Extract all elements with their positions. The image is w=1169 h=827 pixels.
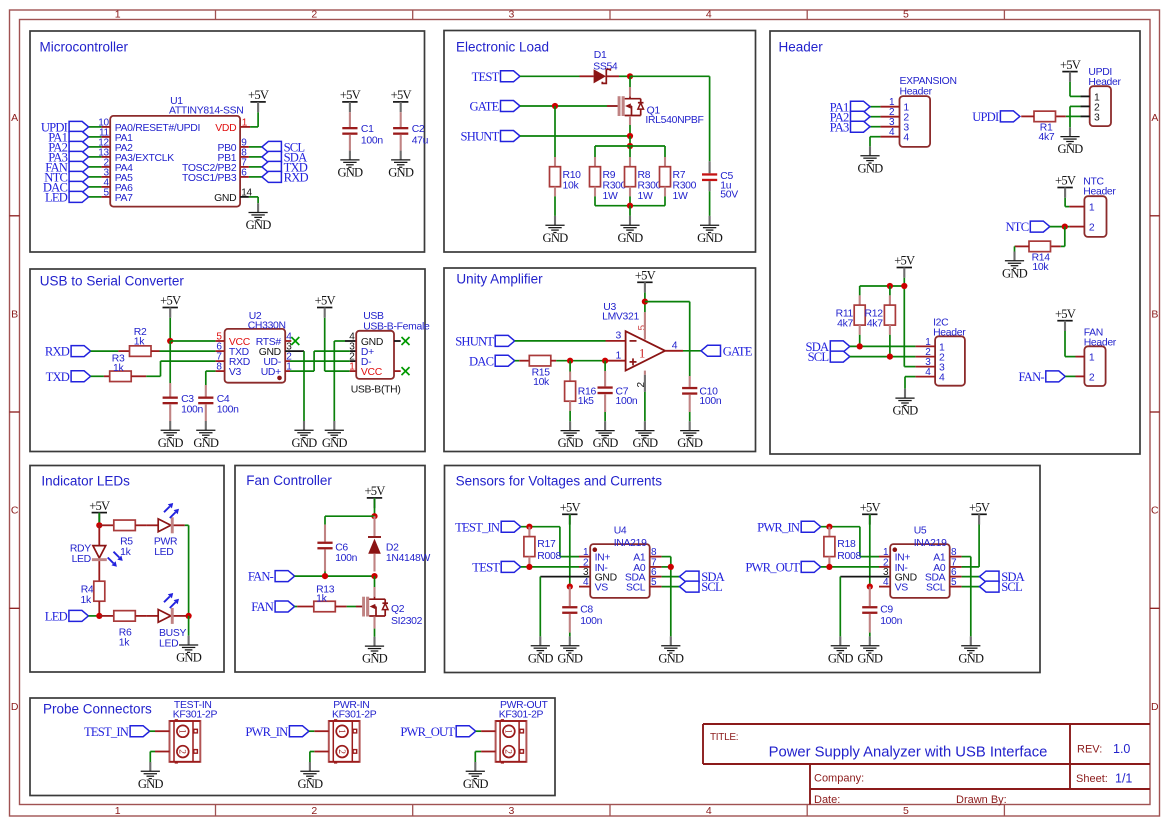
LED PWR <box>154 503 179 558</box>
wire TEST_IN to pin1 <box>150 730 155 732</box>
svg-text:3: 3 <box>509 9 515 21</box>
svg-text:4: 4 <box>939 373 945 384</box>
svg-text:GND: GND <box>658 651 684 665</box>
wire R5 to PWR LED <box>147 524 159 526</box>
wire Q1 drain <box>629 76 631 96</box>
svg-text:FAN-: FAN- <box>1019 370 1045 384</box>
svg-text:1/1: 1/1 <box>1115 772 1132 786</box>
label PA1 (header) <box>830 100 870 114</box>
svg-text:UPDI: UPDI <box>972 110 999 124</box>
svg-text:KF301-2P: KF301-2P <box>499 710 544 721</box>
wire U4 SCL <box>662 586 680 588</box>
ground (C10) <box>677 421 703 450</box>
wire SHUNT to U3 pin3 <box>515 340 626 342</box>
wire R16 to ground <box>569 411 571 421</box>
resistor R15 10k <box>515 355 557 387</box>
wire resistor top bus <box>595 145 665 147</box>
wire bus to ground <box>629 206 631 216</box>
svg-text:Date:: Date: <box>814 794 840 806</box>
wire to PA1 <box>89 136 102 138</box>
svg-text:C3: C3 <box>181 394 194 405</box>
svg-text:C2: C2 <box>412 124 425 135</box>
label PWR_IN (probe) <box>245 725 309 739</box>
connector FAN Header body <box>1084 327 1117 386</box>
wire R15 to U3 pin1 <box>556 360 625 362</box>
svg-text:USB to Serial Converter: USB to Serial Converter <box>40 274 185 289</box>
PWR-IN pin leads <box>314 731 329 751</box>
wire TEST-IN pin2 to ground <box>150 752 155 763</box>
svg-text:RXD: RXD <box>284 171 309 185</box>
svg-text:A: A <box>1151 112 1158 124</box>
label PA3 (header) <box>830 120 870 134</box>
wire C6 to FAN- node <box>324 572 326 577</box>
wire to UPDI <box>89 126 102 128</box>
svg-text:+5V: +5V <box>1055 174 1076 188</box>
connector TEST-IN KF301-2P body <box>170 700 218 764</box>
wire +5V to NTC pin1 <box>1065 198 1069 207</box>
label SDA (U5) <box>980 570 1025 584</box>
ground (C7) <box>593 421 619 450</box>
svg-text:1k: 1k <box>316 594 327 605</box>
svg-text:KF301-2P: KF301-2P <box>332 710 377 721</box>
svg-text:PWR: PWR <box>154 536 178 547</box>
svg-text:4k7: 4k7 <box>867 319 883 330</box>
U4 pin 5 SCL <box>626 577 662 593</box>
svg-text:B: B <box>1151 308 1158 320</box>
label UPDI (header) <box>972 110 1020 124</box>
svg-text:1k: 1k <box>134 336 145 347</box>
capacitor C7 100n <box>598 361 638 412</box>
junction PWR_IN/R18 <box>826 524 832 530</box>
wire PWR-IN pin2 to ground <box>310 752 314 763</box>
svg-text:A: A <box>11 112 18 124</box>
svg-text:50V: 50V <box>720 189 738 200</box>
svg-text:B: B <box>11 308 18 320</box>
svg-text:GND: GND <box>558 436 584 450</box>
U2 RTS# no-connect <box>285 337 299 345</box>
svg-text:+5V: +5V <box>248 88 269 102</box>
svg-text:+5V: +5V <box>1060 58 1081 72</box>
wire to RXD <box>249 176 262 178</box>
label PA1 <box>48 131 88 145</box>
capacitor C5 1u 50V <box>702 161 738 200</box>
power +5V (U1) <box>248 88 269 112</box>
svg-text:RXD: RXD <box>45 345 70 359</box>
svg-text:1: 1 <box>616 350 622 361</box>
svg-text:4k7: 4k7 <box>1039 132 1055 143</box>
svg-text:1k: 1k <box>119 637 130 648</box>
junction PWR_OUT/R18 <box>826 564 832 570</box>
svg-text:IRL540NPBF: IRL540NPBF <box>645 115 703 126</box>
svg-text:R9: R9 <box>603 170 616 181</box>
ground (U5 A1) <box>958 636 984 665</box>
svg-text:2: 2 <box>503 749 513 754</box>
svg-text:PWR_IN: PWR_IN <box>757 520 800 534</box>
U2 pin 4 RTS# <box>256 332 292 348</box>
svg-text:PWR_IN: PWR_IN <box>245 725 288 739</box>
label PWR_OUT <box>745 561 820 575</box>
U2 pin 7 RXD <box>216 352 250 368</box>
wire NTC node to R14 <box>1061 227 1065 247</box>
USB shield pin no-connect top <box>394 337 410 345</box>
junction TEST_IN/R17 <box>526 524 532 530</box>
wire U5 SCL <box>962 586 980 588</box>
junction resistor bus top <box>627 143 633 149</box>
section box Sensors for Voltages and Currents <box>445 466 1041 673</box>
wire BUSY LED to rail <box>174 615 189 617</box>
label TEST_IN (probe) <box>84 725 150 739</box>
U1 pin 5 PA7 <box>101 187 133 203</box>
wire U4 A0 join <box>662 566 671 568</box>
label SCL (U5) <box>980 580 1023 594</box>
wire U5 A1 to ground rail <box>962 557 971 637</box>
U1 pin 4 PA6 <box>101 177 133 193</box>
IC U5 INA219 body <box>890 526 950 598</box>
svg-text:5: 5 <box>903 805 909 817</box>
label PA2 (header) <box>830 110 870 124</box>
power +5V (U4 VS) <box>560 501 581 525</box>
svg-text:SHUNT: SHUNT <box>461 130 500 144</box>
ground (C2) <box>388 151 414 180</box>
USB pin 3 D+ <box>349 342 374 358</box>
wire +5V over to C6 <box>325 516 375 524</box>
resistor R18 R008 <box>824 527 862 567</box>
U1 pin 10 PA0/RESET#/UPDI <box>98 117 200 133</box>
svg-text:C6: C6 <box>335 543 348 554</box>
wire C8 to ground <box>569 633 571 637</box>
ground (C4) <box>193 421 219 450</box>
svg-text:GND: GND <box>593 436 619 450</box>
wire +5V down to I2C pin3 <box>903 278 905 367</box>
U4 pin 8 A1 <box>633 547 661 563</box>
USB pin 4 GND <box>349 332 383 348</box>
ground (R10) <box>543 216 569 245</box>
svg-text:R008: R008 <box>837 551 861 562</box>
wire PA2 to EXPANSION <box>870 116 880 118</box>
wire TEST to D1 <box>520 75 580 77</box>
svg-text:GND: GND <box>632 436 658 450</box>
svg-text:100n: 100n <box>335 553 357 564</box>
capacitor C4 100n <box>198 385 239 421</box>
svg-text:+5V: +5V <box>894 254 915 268</box>
svg-text:V3: V3 <box>229 367 242 378</box>
svg-text:REV:: REV: <box>1077 744 1102 756</box>
svg-text:100n: 100n <box>699 396 721 407</box>
capacitor C8 100n <box>562 587 602 633</box>
svg-text:1: 1 <box>115 9 121 21</box>
I2C header pin 1 <box>916 337 936 348</box>
svg-text:R008: R008 <box>537 551 561 562</box>
svg-text:D: D <box>11 701 19 713</box>
EXPANSION pin 1 <box>880 97 899 108</box>
ground (R14) <box>1002 252 1028 281</box>
svg-text:10k: 10k <box>533 377 550 388</box>
connector PWR-IN KF301-2P body <box>329 700 377 764</box>
USB shield pin no-connect bottom <box>394 367 410 375</box>
USB pin 1 VCC <box>349 362 382 378</box>
wire TEST to IN- <box>521 566 579 568</box>
ground (LEDs) <box>176 636 202 665</box>
svg-text:5: 5 <box>903 9 909 21</box>
LED BUSY <box>158 593 186 650</box>
svg-text:USB: USB <box>363 311 384 322</box>
resistor R4 1k <box>81 561 105 616</box>
svg-text:GND: GND <box>677 436 703 450</box>
label LED (indicator) <box>45 610 89 624</box>
svg-text:GATE: GATE <box>723 344 753 358</box>
svg-text:100n: 100n <box>217 405 239 416</box>
svg-text:PA7: PA7 <box>115 193 133 204</box>
I2C header pin 4 <box>916 367 936 378</box>
power +5V (U2) <box>160 294 181 318</box>
junction +5V/C3 <box>167 338 173 344</box>
resistor R16 1k5 <box>565 361 597 411</box>
U2 pin 3 GND <box>259 342 293 358</box>
IC U4 INA219 body <box>590 526 650 598</box>
resistor R8 R300 1W <box>625 146 662 202</box>
svg-text:TITLE:: TITLE: <box>710 732 738 743</box>
resistor R11 4k7 <box>836 286 866 335</box>
svg-text:GND: GND <box>463 777 489 791</box>
junction R16 tap <box>567 358 573 364</box>
svg-text:Header: Header <box>1088 77 1121 88</box>
wire R11 to SDA <box>859 335 861 347</box>
wire U3 pin2 to ground <box>644 392 646 421</box>
junction VS/C9 <box>867 584 873 590</box>
svg-text:1N4148W: 1N4148W <box>386 553 431 564</box>
wire Q2 source to ground <box>373 616 375 636</box>
wire U2 GND pin3 <box>285 351 304 421</box>
LED RDY <box>70 525 123 566</box>
resistor R5 1k <box>99 520 146 558</box>
wire R9 bottom <box>594 196 596 205</box>
wire SDA to I2C pin1 <box>850 345 916 347</box>
wire +5V down <box>374 498 376 516</box>
wire U3 output to GATE <box>665 350 701 352</box>
label PA2 <box>48 141 88 155</box>
label RXD <box>262 171 309 185</box>
wire SHUNT <box>520 135 630 137</box>
U5 pin 2 IN- <box>879 557 908 573</box>
wire +5V over to C10 <box>645 302 690 376</box>
svg-text:USB-B(TH): USB-B(TH) <box>351 385 401 396</box>
svg-text:GND: GND <box>297 777 323 791</box>
label UPDI <box>41 121 89 135</box>
wire +5V to USB VCC <box>325 318 357 371</box>
svg-text:Electronic Load: Electronic Load <box>456 40 549 55</box>
label NTC <box>44 171 88 185</box>
svg-text:100n: 100n <box>181 405 203 416</box>
svg-text:Q2: Q2 <box>391 604 405 615</box>
resistor R12 4k7 <box>865 286 896 335</box>
svg-text:C: C <box>1151 505 1159 517</box>
svg-text:PWR_OUT: PWR_OUT <box>745 561 800 575</box>
wire EXPANSION pin4 to ground <box>870 137 880 147</box>
svg-text:GND: GND <box>214 193 236 204</box>
svg-text:+5V: +5V <box>635 269 656 283</box>
wire +5V elbow to pin3 <box>904 366 915 368</box>
svg-text:2: 2 <box>1089 223 1095 234</box>
ground (Q2) <box>362 637 388 666</box>
svg-text:RDY: RDY <box>70 544 91 555</box>
svg-text:ATTINY814-SSN: ATTINY814-SSN <box>169 106 243 117</box>
resistor R7 R300 1W <box>660 146 697 202</box>
wire to SCL <box>249 146 262 148</box>
svg-text:U5: U5 <box>914 526 927 537</box>
svg-text:NTC: NTC <box>1006 220 1029 234</box>
svg-text:VDD: VDD <box>215 123 236 134</box>
ground (C8) <box>557 636 583 665</box>
section box Unity Amplifier <box>444 268 756 452</box>
capacitor C1 100n <box>342 112 383 150</box>
wire RXD to R2 <box>91 350 119 352</box>
transistor Q2 SI2302 <box>356 597 423 627</box>
power +5V (FAN header) <box>1055 307 1076 331</box>
junction FAN-/D2 <box>371 573 377 579</box>
svg-text:R17: R17 <box>537 539 556 550</box>
wire to SDA <box>249 156 262 158</box>
U4 pin 7 A0 <box>633 557 661 573</box>
svg-text:2: 2 <box>336 749 346 754</box>
U5 pin 5 SCL <box>926 577 962 593</box>
svg-text:DAC: DAC <box>469 354 494 368</box>
FAN header pins <box>1076 357 1085 377</box>
svg-text:SCL: SCL <box>926 583 946 594</box>
U5 pin 4 VS <box>879 577 908 593</box>
junction NTC/R14 <box>1062 224 1068 230</box>
junction bottom bus <box>627 203 633 209</box>
wire R8 bottom <box>629 196 631 205</box>
wire USB GND pin4 <box>334 341 356 421</box>
svg-text:1W: 1W <box>673 191 688 202</box>
section box USB to Serial Converter <box>30 269 425 452</box>
TEST-IN pin leads <box>155 731 170 751</box>
U1 pin 2 PA4 <box>101 157 133 173</box>
svg-text:D1: D1 <box>594 50 607 61</box>
wire PWR_OUT to pin1 <box>476 730 481 732</box>
resistor R6 1k <box>99 611 146 649</box>
label NTC (header) <box>1006 220 1050 234</box>
label SDA (I2C) <box>806 340 850 354</box>
U5 pin 7 A0 <box>933 557 961 573</box>
wire to DAC <box>89 186 102 188</box>
wire C5 to ground <box>709 191 711 216</box>
svg-text:2: 2 <box>311 9 317 21</box>
svg-text:3: 3 <box>1094 112 1100 123</box>
svg-text:LED: LED <box>45 610 68 624</box>
svg-text:GND: GND <box>543 231 569 245</box>
svg-text:R300: R300 <box>603 180 627 191</box>
svg-text:+5V: +5V <box>340 88 361 102</box>
wire R13 to Q2 gate <box>347 606 356 608</box>
capacitor C9 100n <box>862 587 902 633</box>
svg-text:+5V: +5V <box>560 501 581 515</box>
junction R12 top <box>887 283 893 289</box>
junction GATE/R10 <box>552 103 558 109</box>
wire R7 bottom <box>664 196 666 205</box>
svg-text:R10: R10 <box>563 170 582 181</box>
svg-text:GND: GND <box>1058 142 1084 156</box>
capacitor C10 100n <box>682 376 722 412</box>
wire R3 to U2 pin7 <box>146 361 215 376</box>
wire resistor bottom bus <box>595 205 665 207</box>
svg-text:GND: GND <box>158 436 184 450</box>
U5 pin 3 GND <box>883 567 917 583</box>
wire VDD to +5V <box>250 112 258 127</box>
wire U5 GND pin3 <box>840 577 890 637</box>
svg-text:2: 2 <box>177 749 187 754</box>
U4 pin 3 GND <box>583 567 617 583</box>
wire C9 to ground <box>869 633 871 637</box>
svg-text:1: 1 <box>1089 203 1095 214</box>
ground (load resistors) <box>618 216 644 245</box>
U2 pin 8 V3 <box>216 362 242 378</box>
svg-text:CH330N: CH330N <box>248 321 286 332</box>
ground (C5) <box>697 216 723 245</box>
svg-text:4k7: 4k7 <box>837 319 853 330</box>
svg-text:GND: GND <box>246 218 272 232</box>
junction SDA/R11 <box>857 343 863 349</box>
section box Indicator LEDs <box>30 466 224 673</box>
svg-text:GND: GND <box>857 651 883 665</box>
svg-text:SCL: SCL <box>808 350 829 364</box>
junction +5V/C6/D2 <box>371 513 377 519</box>
wire I2C pin4 to ground <box>905 377 916 389</box>
svg-text:GND: GND <box>557 651 583 665</box>
label SCL (I2C) <box>808 350 850 364</box>
svg-text:INA219: INA219 <box>614 538 647 549</box>
label TEST <box>472 70 520 84</box>
svg-text:1: 1 <box>1089 353 1095 364</box>
svg-text:R300: R300 <box>673 180 697 191</box>
label TEST_IN <box>455 520 521 534</box>
wire PWR_OUT to IN- <box>821 566 879 568</box>
svg-text:10k: 10k <box>1032 262 1049 273</box>
wire C7 to ground <box>604 412 606 421</box>
wire UD+ to USB D+ <box>285 351 356 371</box>
svg-text:Header: Header <box>779 40 824 55</box>
USB pin 2 D- <box>349 352 371 368</box>
svg-text:1.0: 1.0 <box>1113 742 1130 756</box>
resistor R17 R008 <box>524 527 562 567</box>
wire PA1 to EXPANSION <box>870 106 880 108</box>
U4 pin 6 SDA <box>625 567 662 583</box>
EXPANSION pin 4 <box>880 127 899 138</box>
svg-text:1k5: 1k5 <box>578 396 594 407</box>
junction LED node <box>96 613 102 619</box>
svg-text:1W: 1W <box>603 191 618 202</box>
svg-text:3: 3 <box>616 330 622 341</box>
U1 pin 13 PA3/EXTCLK <box>98 147 174 163</box>
UPDI header pin 1 <box>1080 95 1089 97</box>
svg-text:2: 2 <box>311 805 317 817</box>
wire to FAN <box>89 166 102 168</box>
EXPANSION pin 3 <box>880 117 899 128</box>
ground (U2 pin3) <box>292 421 318 450</box>
label GATE (electronic load) <box>470 100 520 114</box>
ground (C1) <box>337 151 363 180</box>
U2 pin 6 TXD <box>216 342 249 358</box>
svg-text:2: 2 <box>1089 373 1095 384</box>
resistor R2 1k <box>118 327 159 356</box>
transistor Q1 IRL540NPBF <box>607 96 704 126</box>
wire PWR_IN to IN+ <box>821 527 879 557</box>
svg-text:INA219: INA219 <box>914 538 947 549</box>
svg-text:100n: 100n <box>616 396 638 407</box>
svg-text:Company:: Company: <box>814 773 864 785</box>
svg-text:4: 4 <box>706 805 712 817</box>
wire R2 to U2 pin6 <box>160 350 216 352</box>
